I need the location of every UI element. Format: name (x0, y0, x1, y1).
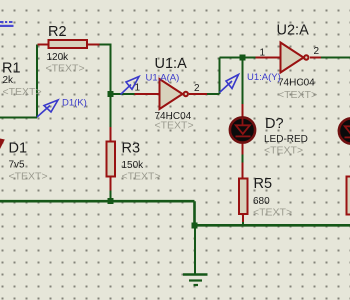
svg-text:<TEXT>: <TEXT> (253, 207, 292, 219)
svg-text:R2: R2 (48, 24, 67, 40)
svg-text:1: 1 (260, 48, 266, 59)
svg-text:74HC04: 74HC04 (278, 78, 315, 89)
svg-text:D1(K): D1(K) (62, 98, 87, 109)
svg-text:U2:A: U2:A (277, 23, 310, 39)
svg-text:<TEXT>: <TEXT> (122, 171, 161, 183)
svg-text:2k: 2k (3, 75, 15, 86)
svg-text:U1:A(A): U1:A(A) (146, 73, 180, 84)
svg-text:LED-RED: LED-RED (264, 134, 308, 145)
svg-text:D?: D? (265, 116, 284, 132)
svg-text:<TEXT>: <TEXT> (3, 86, 42, 98)
svg-text:120k: 120k (47, 52, 70, 63)
svg-text:R5: R5 (254, 176, 273, 192)
svg-text:2: 2 (314, 46, 320, 57)
svg-text:<TEXT>: <TEXT> (9, 171, 48, 183)
svg-text:2: 2 (194, 83, 200, 94)
svg-text:U1:A(Y): U1:A(Y) (247, 72, 281, 83)
svg-text:<TEXT>: <TEXT> (155, 120, 194, 132)
svg-text:<TEXT>: <TEXT> (264, 145, 303, 157)
svg-text:680: 680 (253, 196, 270, 207)
svg-text:R3: R3 (122, 141, 141, 157)
svg-text:D1: D1 (9, 141, 28, 157)
svg-text:150k: 150k (122, 160, 145, 171)
svg-text:1: 1 (135, 83, 141, 94)
svg-text:7v5: 7v5 (9, 160, 26, 171)
svg-text:U1:A: U1:A (155, 56, 188, 72)
svg-text:<TEXT>: <TEXT> (46, 63, 85, 75)
svg-text:<TEXT>: <TEXT> (278, 89, 317, 101)
